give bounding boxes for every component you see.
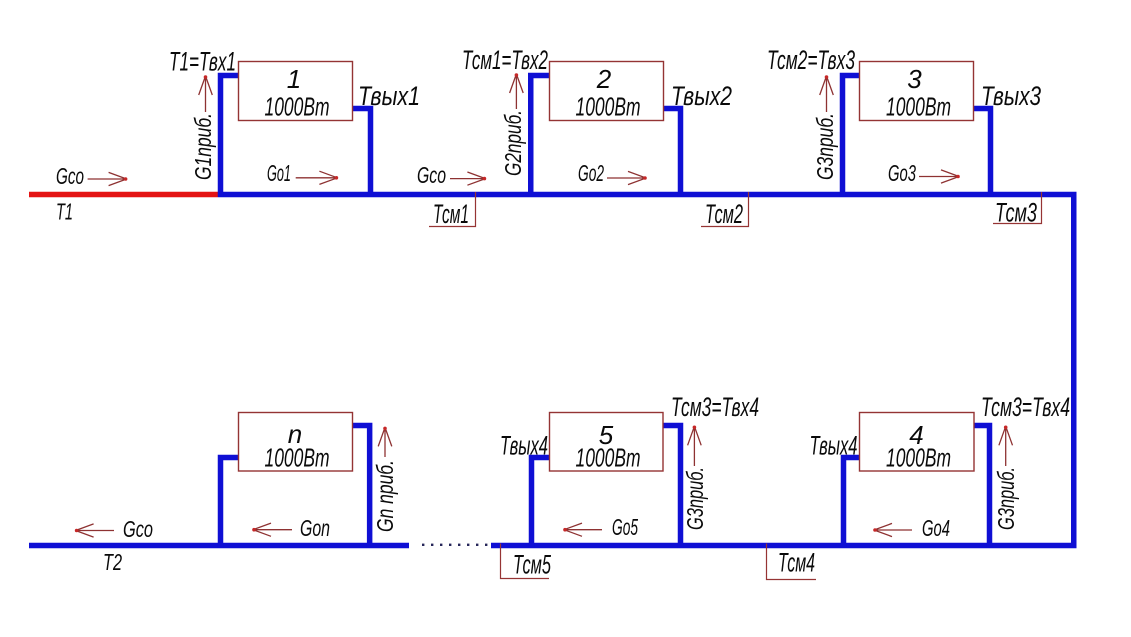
svg-text:Go5: Go5 [612, 514, 638, 540]
wire radiator n outlet (bottom left) [221, 458, 241, 549]
svg-text:Go1: Go1 [267, 160, 291, 186]
wire radiator 2 inlet riser [531, 76, 552, 198]
arrow G3приб up [820, 76, 834, 112]
svg-text:Go2: Go2 [578, 160, 604, 186]
svg-text:1000Bm: 1000Bm [265, 443, 330, 473]
svg-text:Тсм5: Тсм5 [513, 550, 552, 580]
arrow Gon left [253, 523, 292, 536]
svg-text:Т2: Т2 [103, 549, 122, 575]
wire radiator 4 outlet (bottom left) [844, 458, 863, 549]
arrow G3приб up (radiator 4) [999, 426, 1013, 466]
svg-text:Gn npuб.: Gn npuб. [372, 460, 398, 532]
arrow G1приб up [199, 76, 213, 112]
wire radiator 5 outlet (bottom left) [532, 458, 552, 549]
svg-text:Твых3: Твых3 [981, 81, 1041, 111]
svg-text:Твых1: Твых1 [358, 81, 420, 111]
svg-text:G1npuб.: G1npuб. [190, 113, 216, 180]
svg-text:Тсм2=Твх3: Тсм2=Твх3 [767, 45, 855, 75]
svg-text:1000Bm: 1000Bm [886, 443, 951, 473]
arrow Gn приб up [378, 427, 392, 457]
arrow G2приб up [510, 74, 524, 109]
svg-text:Тсм3=Твх4: Тсм3=Твх4 [981, 392, 1070, 422]
wire radiator 5 inlet (bottom right) [660, 426, 681, 549]
svg-text:1000Bm: 1000Bm [886, 92, 951, 122]
radiator n box [239, 413, 353, 472]
arrow Go4 left [874, 523, 912, 536]
svg-text:Gco: Gco [56, 163, 84, 189]
arrow Go5 left [564, 523, 602, 536]
radiator 5 box [550, 413, 664, 472]
svg-text:Т1: Т1 [56, 199, 73, 225]
svg-text:Тсм2: Тсм2 [705, 199, 743, 229]
svg-text:1000Bm: 1000Bm [576, 92, 641, 122]
svg-text:Тсм4: Тсм4 [778, 548, 815, 578]
svg-text:Go4: Go4 [922, 515, 950, 541]
wire radiator 4 inlet (bottom right) [971, 426, 990, 549]
svg-text:Твых4: Твых4 [500, 431, 548, 461]
arrow Gco2 right [450, 172, 485, 185]
wire radiator 2 outlet drop [660, 109, 681, 198]
wire radiator n inlet (bottom right) [350, 426, 370, 549]
radiator 4 box [860, 413, 975, 472]
radiator 3 box [860, 62, 974, 121]
wire supply pipe T1 (red) [29, 192, 218, 198]
svg-text:Т1=Твх1: Т1=Твх1 [169, 47, 236, 77]
svg-text:1000Bm: 1000Bm [576, 443, 641, 473]
svg-text:Тсм1: Тсм1 [433, 199, 469, 229]
svg-text:G3npuб.: G3npuб. [993, 467, 1019, 530]
svg-text:G3npuб.: G3npuб. [682, 467, 708, 530]
wire radiator 1 inlet riser [221, 76, 242, 198]
svg-text:1: 1 [287, 64, 301, 94]
wire radiator 1 outlet drop [350, 109, 371, 198]
arrow Gco right [88, 172, 127, 185]
svg-text:1000Bm: 1000Bm [265, 92, 330, 122]
svg-text:3: 3 [907, 64, 922, 94]
svg-text:Go3: Go3 [888, 160, 916, 186]
svg-text:Gon: Gon [300, 515, 330, 541]
radiator 2 box [550, 62, 664, 121]
svg-text:Тсм1=Твх2: Тсм1=Твх2 [462, 45, 548, 75]
svg-text:Gco: Gco [123, 516, 153, 542]
arrow Go3 right [919, 170, 959, 183]
arrow Go2 right [607, 171, 646, 184]
radiator 1 box [239, 62, 353, 121]
svg-text:2: 2 [596, 64, 612, 94]
svg-text:Тсм3=Твх4: Тсм3=Твх4 [671, 392, 759, 422]
wire bottom return pipe T2 left segment [29, 543, 409, 549]
svg-text:G3npuб.: G3npuб. [812, 113, 838, 180]
wire top main pipe + right downcomer + bottom right return [218, 195, 1074, 546]
wire dotted continuation of return pipe [422, 544, 487, 546]
arrow Gco left [76, 524, 114, 537]
wire radiator 3 outlet drop [971, 109, 991, 198]
arrow G3приб up (radiator 5) [688, 426, 702, 466]
wire radiator 3 inlet riser [843, 76, 863, 198]
svg-text:G2npuб.: G2npuб. [500, 110, 526, 176]
svg-text:Твых2: Твых2 [671, 81, 732, 111]
arrow Go1 right [296, 171, 338, 184]
svg-text:Gco: Gco [417, 162, 446, 188]
svg-text:Твых4: Твых4 [810, 431, 858, 461]
